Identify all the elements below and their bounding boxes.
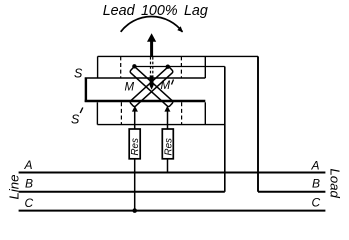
svg-text:Res: Res: [130, 138, 141, 156]
coil lower-left terminal arrow: [132, 106, 138, 112]
top frame left edge: [97, 56, 99, 78]
svg-text:M: M: [125, 82, 135, 94]
coil S' band bottom edge: [97, 124, 224, 126]
scale arc: [121, 17, 183, 32]
coil terminal dot upper-left: [132, 64, 136, 68]
svg-text:M: M: [161, 80, 171, 92]
lead from coil to right resistor: [167, 110, 169, 129]
svg-text:C: C: [25, 196, 34, 210]
line B right segment: [258, 191, 325, 193]
coil S band left edge (thick): [85, 78, 87, 103]
needle dashed shaft: [150, 57, 152, 76]
svg-text:Line: Line: [7, 175, 22, 200]
coil terminal dot upper-right: [166, 65, 170, 69]
top frame right edge: [204, 56, 206, 78]
wire right vertical: [257, 56, 259, 191]
line B left segment: [19, 191, 225, 193]
resistor Res (right): [162, 129, 173, 159]
svg-text:Res: Res: [163, 138, 174, 156]
needle pivot arrowhead: [150, 76, 154, 90]
svg-text:B: B: [312, 176, 320, 190]
top frame dashed core line right: [180, 56, 182, 78]
lead right resistor to line A: [167, 159, 169, 173]
line C: [19, 210, 326, 212]
coil S' band left edge: [96, 102, 98, 124]
top wire: [98, 55, 258, 57]
coil common wire: [134, 66, 224, 68]
svg-text:A: A: [24, 158, 33, 172]
svg-text:S: S: [74, 67, 83, 81]
coil S' band right edge: [204, 102, 206, 124]
coil S band top edge: [85, 77, 206, 79]
moving coil M' (upper-right to lower-left): [129, 66, 173, 107]
needle arrow (pointer): [147, 33, 156, 56]
svg-text:S: S: [71, 113, 80, 127]
moving coil M (upper-left to lower-right): [129, 66, 173, 107]
lead left resistor to line C: [134, 159, 136, 211]
S' band dashed core line right: [181, 102, 183, 124]
coil S band bottom edge (thick): [85, 100, 206, 103]
svg-text:B: B: [25, 176, 33, 190]
scale arc arrowhead: [177, 26, 183, 32]
svg-text:C: C: [312, 196, 321, 210]
wire down to line B (left gap end): [224, 67, 226, 192]
svg-text:Load: Load: [328, 169, 343, 199]
top frame dashed core line left: [120, 56, 122, 78]
S' band dashed core line left: [120, 102, 122, 124]
resistor Res (left): [129, 129, 140, 159]
svg-text:A: A: [311, 159, 320, 173]
junction dot on line C: [132, 208, 137, 213]
line A: [19, 172, 326, 174]
coil lower-right terminal arrow: [164, 106, 170, 112]
lead from coil to left resistor: [134, 110, 136, 129]
